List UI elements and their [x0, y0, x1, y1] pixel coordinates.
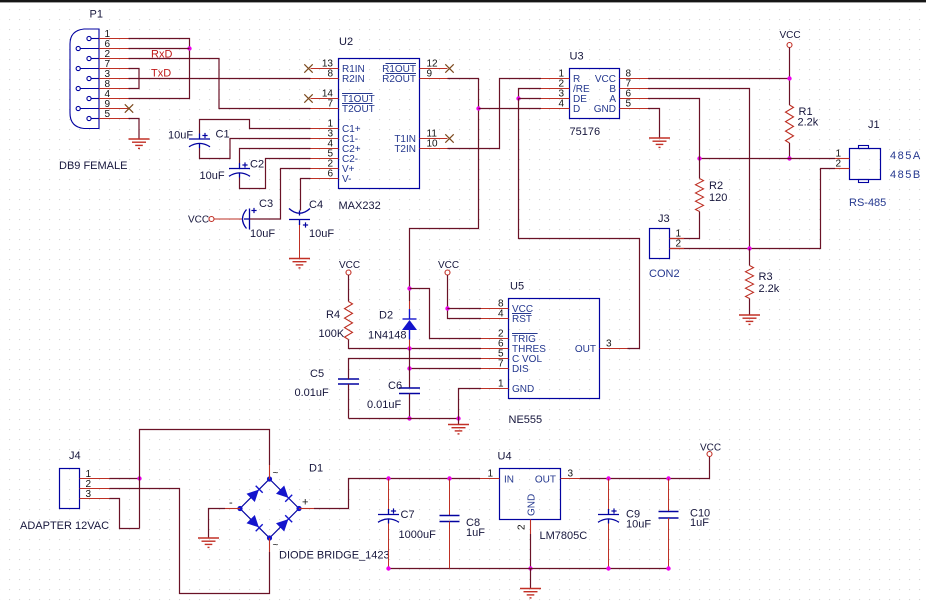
wire U4 ground stub [530, 569, 532, 589]
wire J1 pin2 to 485B [670, 169, 836, 249]
U2 pin 14 (T1OUT) stub [311, 98, 339, 100]
bridge pin - left [225, 508, 240, 510]
resistor R3 [746, 266, 754, 299]
svg-text:0.01uF: 0.01uF [295, 387, 330, 399]
svg-text:C5: C5 [310, 368, 324, 380]
wire U3 A to riser [648, 99, 700, 159]
bridge vertex dot [237, 506, 242, 511]
wire AC top net [140, 430, 270, 529]
wire U4 GND down [530, 534, 532, 569]
U5 pin 5 (C VOL) stub [481, 358, 509, 360]
U2 pin 11 (T1IN) stub [420, 138, 448, 140]
wire C1+ to U2 pin1 [200, 120, 311, 134]
svg-text:10uF: 10uF [626, 519, 651, 531]
svg-text:+: + [302, 497, 308, 509]
wire VCC to RST [448, 275, 482, 319]
P1 pin 8 stub [99, 88, 129, 90]
P1 pin 9 stub [99, 108, 129, 110]
capacitor C10 [659, 512, 679, 519]
svg-text:U2: U2 [339, 36, 353, 48]
junction D line [476, 106, 480, 110]
wire C3 to U2 V+ [250, 169, 311, 220]
U2 pin 3 (C1-) stub [311, 138, 339, 140]
wire C8 top [449, 479, 451, 516]
J1 pin 1 stub [835, 158, 850, 160]
P1 pin 6 circle [76, 46, 80, 50]
svg-text:~: ~ [273, 540, 279, 551]
U2 pin 1 (C1+) stub [311, 128, 339, 130]
J3 pin 1 stub [670, 238, 685, 240]
svg-text:GND: GND [527, 494, 538, 516]
resistor R1 [786, 105, 794, 143]
svg-text:~: ~ [273, 468, 279, 479]
U2 pin 2 (V+) stub [311, 168, 339, 170]
svg-text:IN: IN [504, 475, 514, 486]
diode bridge D1 frame [240, 479, 299, 538]
svg-text:LM7805C: LM7805C [540, 530, 588, 542]
wire U2 V- to C4 [301, 179, 311, 211]
wire C8 bottom [449, 522, 451, 569]
wire C5 top to C VOL [349, 359, 482, 380]
svg-text:5: 5 [105, 109, 111, 120]
connector P1 body [70, 29, 99, 129]
svg-text:7: 7 [327, 99, 333, 110]
capacitor C7 [378, 509, 399, 524]
wire pin5 to ground [129, 119, 140, 140]
wire C7 bottom [388, 524, 390, 569]
svg-text:D1: D1 [309, 463, 323, 475]
junction TRIG-D2 [407, 286, 411, 290]
U5 pin 1 (GND) stub [481, 388, 509, 390]
svg-text:RS-485: RS-485 [849, 197, 886, 209]
U5 pin 6 (THRES) stub [481, 348, 509, 350]
ground bridge [198, 538, 219, 547]
wire U3 GND to ground [648, 109, 660, 139]
no-connect X U2 pin12 [445, 64, 453, 72]
wire bridge minus to ground [209, 509, 226, 539]
wire J4 pin2 to AC bottom [110, 489, 270, 594]
wire DIS line [410, 368, 482, 370]
capacitor C6 [399, 388, 420, 394]
svg-text:120: 120 [709, 192, 727, 204]
wire R3 top [749, 249, 751, 266]
capacitor C5 [338, 379, 359, 384]
svg-text:GND: GND [594, 104, 616, 115]
svg-text:R2OUT: R2OUT [382, 74, 416, 85]
P1 pin 1 circle [87, 36, 91, 40]
P1 pin 2 circle [87, 56, 91, 60]
wire VCC to C3 [214, 218, 243, 220]
svg-text:1: 1 [498, 379, 504, 390]
P1 pin 3 circle [87, 76, 91, 80]
svg-text:DB9 FEMALE: DB9 FEMALE [59, 160, 127, 172]
svg-text:V-: V- [342, 174, 351, 185]
junction C10 top [666, 476, 670, 480]
wire VCC down [789, 48, 791, 106]
svg-text:VCC: VCC [339, 260, 360, 271]
resistor R2 [696, 179, 704, 212]
svg-text:3: 3 [86, 489, 92, 500]
svg-text:1uF: 1uF [690, 517, 709, 529]
svg-text:DIS: DIS [512, 364, 529, 375]
svg-text:75176: 75176 [570, 126, 601, 138]
junction C8 top [447, 476, 451, 480]
svg-text:R4: R4 [326, 309, 340, 321]
bridge diode SW [247, 515, 259, 527]
U2 pin 13 (R1IN) stub [311, 68, 339, 70]
svg-text:4: 4 [558, 99, 564, 110]
svg-text:1uF: 1uF [466, 527, 485, 539]
svg-text:5: 5 [626, 99, 632, 110]
svg-text:R2: R2 [709, 180, 723, 192]
bridge pin ~ bottom [269, 538, 271, 552]
wire U2 R2OUT to U3 D [410, 79, 479, 289]
U5 pin 2 (TRIG) stub [481, 338, 509, 340]
wire U3 D line [479, 108, 542, 110]
P1 pin 4 stub [99, 98, 129, 100]
capacitor C3 [243, 209, 250, 230]
svg-text:TxD: TxD [151, 68, 171, 80]
svg-text:3: 3 [606, 339, 612, 350]
U4 pin 3 stub [561, 478, 581, 480]
no-connect X U2 pin13 [304, 64, 312, 72]
connector J4 body [60, 469, 80, 509]
wire TRIG jog [410, 289, 482, 339]
wire pin6 [129, 48, 190, 50]
svg-text:VCC: VCC [780, 30, 801, 41]
svg-text:C4: C4 [309, 199, 323, 211]
svg-text:U5: U5 [510, 281, 524, 293]
P1 pin 3 stub [99, 78, 129, 80]
U5 pin 8 (VCC) stub [481, 308, 509, 310]
wire D2-C6 vertical [409, 349, 411, 389]
P1 pin 7 stub [99, 68, 129, 70]
svg-text:10uF: 10uF [250, 228, 275, 240]
junction DIS [407, 366, 411, 370]
wire C2- to U2 pin5 [240, 159, 311, 189]
wire bottom rail [389, 568, 669, 570]
U2 pin 6 (V-) stub [311, 178, 339, 180]
P1 pin 5 circle [87, 116, 91, 120]
svg-text:8: 8 [327, 69, 333, 80]
J3 pin 2 stub [670, 248, 685, 250]
svg-text:J3: J3 [658, 213, 670, 225]
wire U3 B to 485B riser [648, 89, 750, 249]
svg-text:10: 10 [427, 139, 439, 150]
P1 pin 2 stub [99, 58, 129, 60]
svg-text:C1: C1 [216, 129, 230, 141]
bridge vertex dot [296, 506, 301, 511]
junction A line [697, 156, 701, 160]
wire GND riser [459, 389, 482, 419]
junction C7 top [386, 476, 390, 480]
U4 pin 2 stub [530, 520, 532, 535]
wire C9 bottom [608, 524, 610, 569]
junction C6 bottom [407, 416, 411, 420]
junction pin6 tie [187, 46, 191, 50]
svg-text:GND: GND [512, 384, 534, 395]
svg-text:1N4148: 1N4148 [368, 330, 407, 342]
wire U5 VCC pin8 [448, 308, 482, 310]
svg-text:D2: D2 [379, 310, 393, 322]
wire pin1 to junction [129, 39, 190, 99]
wire U3 DE stub [519, 98, 542, 100]
junction C9 top [606, 476, 610, 480]
ground C4 [289, 259, 310, 268]
svg-text:CON2: CON2 [649, 268, 680, 280]
capacitor C1 [189, 134, 210, 149]
no-connect X U2 pin14 [304, 94, 312, 102]
U2 pin 12 (R1OUT) stub [420, 68, 448, 70]
P1 pin 5 stub [99, 118, 129, 120]
P1 pin 6 stub [99, 48, 129, 50]
ground DB9 pin5 [129, 139, 150, 148]
svg-text:OUT: OUT [575, 344, 596, 355]
top border bar [0, 0, 926, 2]
wire J4 pin1 to AC top [110, 478, 140, 480]
svg-text:J4: J4 [69, 450, 81, 462]
P1 pin 4 circle [87, 96, 91, 100]
wire C5 bottom [348, 384, 350, 419]
junction C10 bottom [666, 566, 670, 570]
svg-text:2: 2 [676, 239, 682, 250]
bridge pin + right [299, 508, 314, 510]
wire C10 top [668, 479, 670, 512]
IC U5 body [509, 299, 600, 399]
P1 pin 1 stub [99, 38, 129, 40]
U5 pin 3 (OUT) stub [600, 348, 628, 350]
U2 pin 7 (T2OUT) stub [311, 108, 339, 110]
wire C2+ to U2 pin4 [240, 149, 311, 164]
wire C6 bottom [409, 394, 411, 419]
svg-text:-: - [229, 497, 233, 509]
U2 pin 5 (C2-) stub [311, 158, 339, 160]
svg-text:100K: 100K [319, 328, 345, 340]
svg-text:1: 1 [487, 469, 493, 480]
svg-text:D: D [573, 104, 580, 115]
wire bottom net [349, 418, 459, 420]
svg-text:R2IN: R2IN [342, 74, 365, 85]
J1 pin 2 stub [835, 168, 850, 170]
wire 485A line [700, 158, 836, 160]
bridge diode NW [247, 490, 259, 502]
no-connect X U2 pin11 [445, 134, 453, 142]
wire R4 bottom to THRES [349, 340, 482, 349]
bridge vertex dot [267, 535, 272, 540]
svg-text:0.01uF: 0.01uF [367, 399, 402, 411]
U3 pin 2 (/RE) stub [541, 88, 570, 90]
U3 pin 1 (R) stub [541, 78, 570, 80]
svg-text:U4: U4 [498, 451, 512, 463]
svg-text:1000uF: 1000uF [399, 529, 437, 541]
svg-text:P1: P1 [90, 9, 103, 21]
P1 pin 8 circle [76, 86, 80, 90]
wire J4 pin3 jog [110, 499, 140, 529]
capacitor C9 [598, 509, 619, 524]
svg-text:R3: R3 [759, 271, 773, 283]
wire ground stub U5 [458, 419, 460, 425]
svg-text:J1: J1 [868, 119, 880, 131]
capacitor C8 [440, 516, 460, 522]
wire R2 top [699, 159, 701, 179]
IC U3 body [570, 69, 620, 119]
svg-text:485A: 485A [890, 150, 922, 162]
U2 pin 4 (C2+) stub [311, 148, 339, 150]
svg-text:9: 9 [427, 69, 433, 80]
svg-text:10uF: 10uF [309, 228, 334, 240]
ground U4 [520, 589, 541, 598]
svg-text:485B: 485B [890, 169, 922, 181]
capacitor C2 [229, 163, 250, 178]
wire D2 anode down [409, 340, 411, 349]
wire RxD pin2 to U2 T2OUT [129, 59, 311, 109]
svg-text:C3: C3 [259, 198, 273, 210]
svg-text:C2: C2 [250, 159, 264, 171]
IC U4 body [500, 469, 561, 520]
svg-text:T2OUT: T2OUT [342, 104, 375, 115]
svg-text:10uF: 10uF [168, 130, 193, 142]
junction R1 bottom [787, 156, 791, 160]
ground U3 [649, 138, 670, 147]
wire C4 to ground [299, 225, 301, 258]
J4 pin 3 stub [80, 498, 110, 500]
wire TxD pin3 to U2 R2IN [129, 78, 311, 80]
U2 pin 10 (T2IN) stub [420, 148, 448, 150]
svg-text:3: 3 [568, 469, 574, 480]
svg-text:2.2k: 2.2k [759, 283, 780, 295]
svg-text:DIODE BRIDGE_1423: DIODE BRIDGE_1423 [279, 550, 390, 562]
svg-text:T2IN: T2IN [394, 144, 416, 155]
svg-text:MAX232: MAX232 [339, 200, 381, 212]
svg-text:7: 7 [498, 359, 504, 370]
U4 pin 1 stub [480, 478, 500, 480]
wire pin7-pin8 loop [129, 69, 140, 89]
wire DE-RE to NE555 OUT [519, 99, 640, 349]
wire D2 cathode up [409, 289, 411, 302]
ground R3 [739, 315, 760, 324]
junction VCC-pin8 [445, 306, 449, 310]
bridge diode NE [276, 486, 288, 498]
wire U3 R to U2 T2IN [448, 79, 542, 149]
connector J3 body [650, 229, 670, 259]
junction C7 bottom [386, 566, 390, 570]
svg-text:U3: U3 [570, 51, 584, 63]
U3 pin 5 (GND) stub [620, 108, 649, 110]
P1 pin 9 circle [76, 106, 80, 110]
wire R3 to ground [749, 299, 751, 316]
junction bottom-GND riser [456, 416, 460, 420]
J4 pin 2 stub [80, 488, 110, 490]
capacitor C4 [289, 209, 310, 226]
U3 pin 4 (D) stub [541, 108, 570, 110]
J4 pin 1 stub [80, 478, 110, 480]
svg-text:ADAPTER 12VAC: ADAPTER 12VAC [20, 520, 109, 532]
bridge vertex dot [267, 476, 272, 481]
svg-text:4: 4 [498, 309, 504, 320]
wire OUT line [580, 457, 710, 479]
junction U4 GND [528, 566, 532, 570]
U2 pin 9 (R2OUT) stub [420, 78, 448, 80]
junction J4 pin1 [137, 476, 141, 480]
U3 pin 8 (VCC) stub [620, 78, 649, 80]
svg-text:OUT: OUT [535, 475, 556, 486]
wire C1- to U2 pin3 [200, 139, 311, 159]
connector J1 body [850, 149, 881, 180]
svg-text:2.2k: 2.2k [798, 117, 819, 129]
wire U3 VCC line [648, 78, 790, 80]
wire C7 top [388, 479, 390, 515]
wire C10 bottom [668, 518, 670, 569]
U2 pin 8 (R2IN) stub [311, 78, 339, 80]
U5 pin 4 (RST) stub [481, 318, 509, 320]
U5 pin 7 (DIS) stub [481, 368, 509, 370]
U3 pin 6 (A) stub [620, 98, 649, 100]
svg-text:6: 6 [327, 169, 333, 180]
svg-text:10uF: 10uF [200, 170, 225, 182]
bridge pin ~ top [269, 465, 271, 479]
junction 485B R3 [747, 246, 751, 250]
svg-text:2: 2 [835, 159, 841, 170]
svg-text:RST: RST [512, 314, 532, 325]
svg-text:2: 2 [517, 524, 528, 530]
wire C9 top [608, 479, 610, 515]
wire U3 /RE to DE [519, 89, 542, 99]
junction /RE-DE [516, 96, 520, 100]
svg-text:C7: C7 [401, 509, 415, 521]
svg-text:C6: C6 [388, 380, 402, 392]
diode D2 [403, 309, 417, 340]
U3 pin 3 (DE) stub [541, 98, 570, 100]
wire VCC to R4 [348, 275, 350, 302]
U3 pin 7 (B) stub [620, 88, 649, 90]
svg-text:VCC: VCC [188, 215, 209, 226]
ground U5 [448, 425, 469, 434]
no-connect X pin9 [125, 104, 133, 112]
bridge diode SE [276, 519, 288, 531]
svg-text:VCC: VCC [438, 260, 459, 271]
wire bridge plus to IN line [314, 479, 480, 509]
junction VCC-R1 [787, 76, 791, 80]
P1 pin 7 circle [76, 66, 80, 70]
IC U2 body [339, 59, 420, 189]
resistor R4 [345, 302, 353, 340]
svg-text:NE555: NE555 [509, 414, 543, 426]
junction C9 bottom [606, 566, 610, 570]
wire R2 bottom to J3 pin1 [670, 212, 700, 239]
junction THRES-D2 [407, 346, 411, 350]
wire R1 to 485A line [789, 143, 791, 159]
